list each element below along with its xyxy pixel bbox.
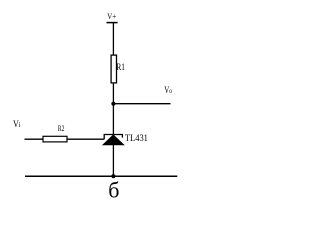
- svg-text:TL431: TL431: [125, 134, 148, 144]
- svg-text:Vi: Vi: [13, 120, 21, 130]
- svg-text:R2: R2: [58, 124, 65, 133]
- svg-text:R1: R1: [116, 62, 125, 72]
- svg-text:V+: V+: [107, 11, 116, 21]
- svg-text:Vo: Vo: [164, 86, 172, 96]
- svg-text:б: б: [108, 178, 119, 203]
